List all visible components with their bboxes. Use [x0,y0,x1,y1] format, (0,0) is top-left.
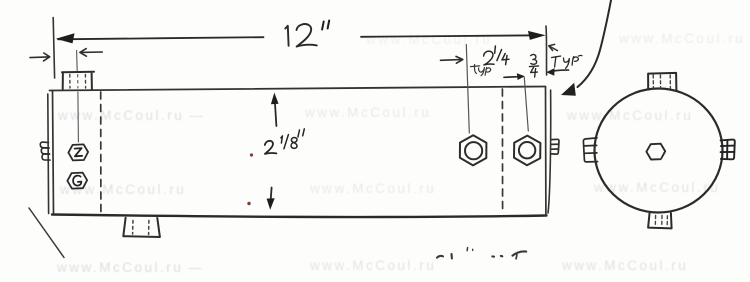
red dot lower [247,202,250,205]
vertical dimension down arrow [270,188,273,201]
dashed line left [100,92,102,213]
arrow to hex2 leader [504,76,519,79]
top-left fitting [62,72,94,89]
arrow TYP upper [549,44,558,50]
cylinder left edge (double line) [53,91,54,215]
svg-text:www.McCoul.ru: www.McCoul.ru [309,181,436,196]
end view center hex [646,144,665,160]
right-edge fitting (threads) [551,139,559,154]
svg-text:www.McCoul.ru: www.McCoul.ru [59,182,186,197]
svg-text:www.McCoul.ru: www.McCoul.ru [561,258,688,273]
dimension line with arrowheads [58,37,264,39]
stray diagonal line [29,208,64,258]
svg-text:www.McCoul.ru: www.McCoul.ru [566,108,693,123]
dashed line right [501,89,503,213]
svg-text:www.McCoul.ru: www.McCoul.ru [304,105,431,120]
hex symbol Z [68,144,88,160]
text 3/4 stacked [529,54,538,77]
hex symbol G [67,173,87,189]
svg-text:www.McCoul.ru —: www.McCoul.ru — [56,260,204,275]
end view bottom fitting [648,213,672,229]
big curved arrow [578,0,612,87]
end view left fitting [583,138,597,162]
leader line to hex nut 1 [466,45,469,134]
svg-text:www.McCoul.ru: www.McCoul.ru [618,31,745,46]
svg-text:www.McCoul.ru: www.McCoul.ru [309,258,436,273]
label 2 1/4 with leader arrow [441,56,463,63]
end view circle [595,89,723,213]
hex nut 1 [460,135,487,165]
svg-text:www.McCoul.ru: www.McCoul.ru [365,32,492,47]
svg-text:www.McCoul.ru —: www.McCoul.ru — [57,108,205,123]
small arrow pointing left at fitting centerline [80,49,102,57]
hex nut 2 [514,136,540,166]
red dot upper [250,153,253,156]
arrow TYP lower [550,70,569,72]
text 2 1/8" [265,141,277,154]
faint cut-off pencil text bottom [437,248,526,259]
end view right fitting [721,140,735,160]
text 12" [285,24,317,47]
text typ (small) [471,65,491,76]
bottom fitting [123,218,160,237]
dimension 12 inch : right tick [545,26,548,75]
end view top fitting [648,73,676,91]
left-edge fitting (threads) [40,142,50,160]
text TYP [552,55,582,68]
cylinder body top edge [50,87,546,91]
leader line to hex nut 2 [524,78,528,132]
fitting centerline [76,51,79,72]
cylinder right edge (double line) [545,87,547,216]
dimension 12 inch : left extension line [53,18,54,79]
text 2 1/4 [484,46,509,65]
small arrow pointing right at left edge [30,53,50,61]
cylinder body bottom edge [52,215,547,218]
vertical dimension up arrow [275,102,277,126]
